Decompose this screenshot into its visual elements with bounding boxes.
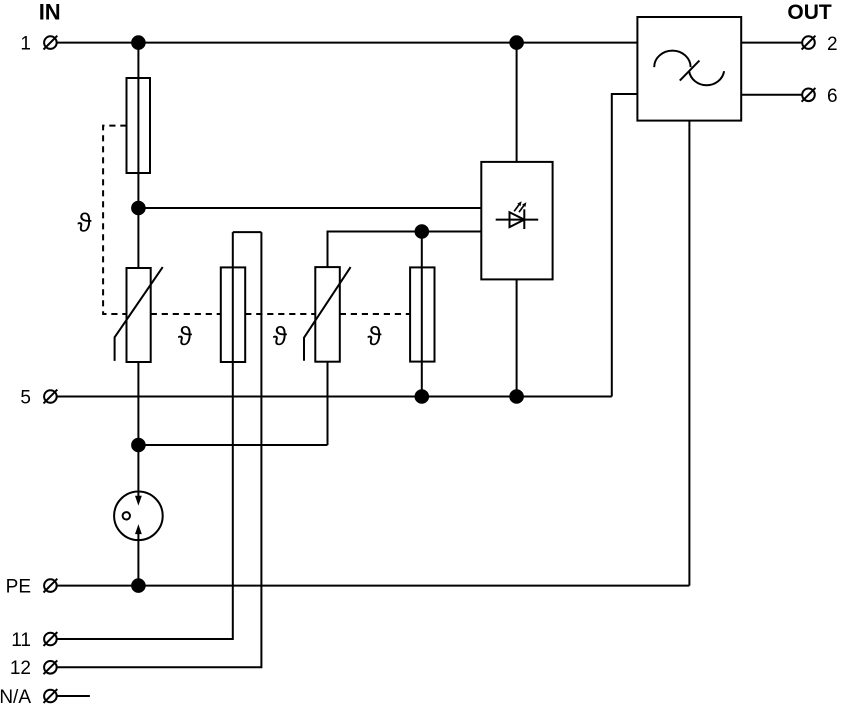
wire RV1 bottom to GDT <box>137 362 139 498</box>
junction PE bus / GDT <box>132 579 145 592</box>
svg-text:ϑ: ϑ <box>273 321 288 351</box>
terminal 1 <box>44 36 58 50</box>
varistor RV2 <box>304 267 351 362</box>
wire line 5 riser to filter U2 left pin <box>612 94 638 397</box>
fuse F1 <box>127 78 151 173</box>
svg-text:6: 6 <box>827 86 838 107</box>
wire GDT to PE bus <box>137 532 139 586</box>
thermal contact bridge 11-12 <box>233 231 262 233</box>
junction line 5 / LED return <box>510 390 523 403</box>
filter U2 symbol <box>654 51 724 86</box>
junction node C (RV2 top / F3 top) <box>416 225 429 238</box>
wire RV2 top to node C <box>328 232 482 268</box>
fuse F3 <box>410 267 434 361</box>
gas discharge tube F4 <box>114 492 163 541</box>
junction RV1 bottom bus <box>132 439 145 452</box>
terminal PE <box>44 579 58 593</box>
wire RV2 bottom <box>327 362 329 445</box>
LED U1 symbol <box>496 201 539 229</box>
wire PE bus <box>57 585 690 587</box>
wire top bus to LED U1 <box>516 43 518 162</box>
wire RV1/RV2 bottom bus <box>138 444 327 446</box>
svg-text:OUT: OUT <box>787 1 832 24</box>
dashed thermal trip link from F1 <box>103 126 126 314</box>
svg-text:ϑ: ϑ <box>178 321 193 351</box>
wire line-5 bus <box>57 396 612 398</box>
wire filter U2 to terminal 2 <box>741 42 802 44</box>
terminal 11 <box>44 632 58 646</box>
wire node below F1 to LED U1 left pin a <box>138 207 481 209</box>
wire N/A stub <box>57 695 90 697</box>
wire fuse F3 branch node C to line 5 <box>421 232 423 397</box>
junction top bus / LED riser <box>510 36 523 49</box>
wire fuse F1 / varistor RV1 branch <box>137 43 139 268</box>
svg-text:5: 5 <box>20 388 31 409</box>
dashed thermal trip link RV1 to F2 <box>151 313 221 315</box>
svg-text:12: 12 <box>10 658 31 679</box>
wire filter U2 to terminal 6 <box>741 94 802 96</box>
terminal 5 <box>44 390 58 404</box>
junction node below F1 <box>132 202 145 215</box>
svg-text:N/A: N/A <box>0 687 31 708</box>
svg-text:11: 11 <box>11 630 31 651</box>
terminal 12 <box>44 660 58 674</box>
terminal N/A <box>44 689 58 703</box>
wire thermal contact to terminal 12 <box>57 232 262 667</box>
svg-text:2: 2 <box>827 34 838 55</box>
varistor RV1 <box>115 267 163 362</box>
thermal fuse F2 <box>221 267 245 362</box>
svg-text:ϑ: ϑ <box>77 208 92 238</box>
terminal 2 <box>802 36 816 50</box>
LED indicator U1 <box>481 162 552 280</box>
svg-text:1: 1 <box>20 34 31 55</box>
terminal 6 <box>802 88 816 102</box>
wire terminal 11 to thermal contact F2 <box>57 232 233 639</box>
svg-text:PE: PE <box>6 577 31 598</box>
dashed thermal trip link F2 to RV2 <box>245 313 315 315</box>
wire LED U1 to line 5 <box>516 279 518 396</box>
svg-text:IN: IN <box>39 0 61 25</box>
filter U2 <box>637 17 741 121</box>
junction line 5 / F3 <box>416 390 429 403</box>
junction top bus / F1 <box>132 36 145 49</box>
wire top bus terminal 1 to filter U2 <box>57 42 638 44</box>
wire filter U2 bottom to PE bus <box>688 121 690 586</box>
dashed thermal trip link RV2 to F3 <box>340 313 410 315</box>
svg-text:ϑ: ϑ <box>367 321 382 351</box>
